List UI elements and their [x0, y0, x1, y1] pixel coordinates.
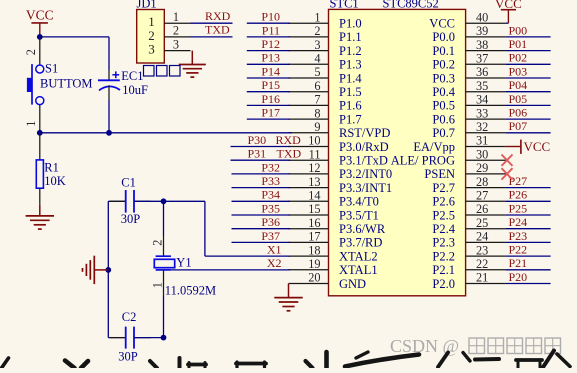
svg-text:18: 18 [308, 243, 320, 257]
svg-text:RST/VPD: RST/VPD [339, 126, 390, 140]
wire net P33 [232, 187, 291, 189]
JD1 pin 2 [148, 24, 190, 43]
svg-text:VCC: VCC [495, 0, 522, 11]
wire JD1 pin2 (TXD) [191, 36, 233, 38]
svg-text:36: 36 [476, 65, 488, 79]
svg-text:R1: R1 [44, 160, 59, 174]
C2 designator [122, 310, 137, 324]
svg-text:PSEN: PSEN [424, 167, 455, 181]
svg-text:P37: P37 [261, 229, 280, 243]
svg-text:33: 33 [476, 106, 488, 120]
junction (VCC / S1 / EC1) [37, 34, 43, 40]
connector JD1 body [137, 10, 165, 64]
svg-text:13: 13 [308, 175, 320, 189]
svg-text:VCC: VCC [524, 139, 551, 154]
svg-text:P30: P30 [248, 133, 267, 147]
crystal Y1 pin 1 [151, 270, 165, 338]
IC pin 6 (P1.5) [289, 79, 362, 99]
crystal Y1 pin 2 [151, 201, 165, 256]
IC pin 33 (P0.6) [432, 106, 505, 126]
resistor R1 [36, 133, 43, 205]
IC pin 29 (PSEN) [424, 161, 505, 181]
svg-text:37: 37 [476, 52, 488, 66]
IC pin 3 (P1.2) [289, 38, 362, 58]
svg-text:P0.1: P0.1 [432, 44, 455, 58]
svg-text:7: 7 [314, 93, 320, 107]
svg-text:2: 2 [151, 240, 165, 246]
svg-text:3: 3 [148, 42, 155, 57]
JD1 pin 1 [148, 10, 190, 29]
svg-text:24: 24 [476, 230, 488, 244]
wire net P22 [506, 255, 551, 257]
wire net P07 [506, 132, 551, 134]
svg-text:P0.3: P0.3 [432, 71, 455, 85]
svg-text:P2.7: P2.7 [432, 181, 455, 195]
wire net P10 [247, 22, 290, 24]
svg-text:P1.2: P1.2 [339, 44, 362, 58]
wire EC1 to RST net [108, 100, 110, 133]
net label P17 [261, 106, 280, 120]
svg-text:30P: 30P [121, 212, 141, 226]
svg-text:P20: P20 [509, 270, 528, 284]
svg-text:TXD: TXD [205, 23, 230, 37]
svg-text:30: 30 [476, 147, 488, 161]
svg-text:P2.2: P2.2 [432, 249, 455, 263]
net label P30 RXD [248, 133, 302, 147]
IC pin 30 (ALE/ PROG) [391, 147, 506, 167]
watermark CSDN @嵌入式基地 [390, 336, 561, 356]
svg-text:JD1: JD1 [137, 0, 157, 11]
svg-text:X2: X2 [267, 256, 282, 270]
IC pin 1 (P1.0) [289, 10, 362, 30]
wire net P20 [506, 283, 551, 285]
ground (IC pin 20) [274, 284, 302, 311]
ground (crystal circuit, rotated) [83, 256, 109, 284]
IC pin 7 (P1.6) [289, 93, 362, 113]
svg-text:P3.2/INT0: P3.2/INT0 [339, 167, 392, 181]
IC pin 20 (GND) [289, 271, 367, 291]
power port VCC (top left) [26, 8, 54, 37]
IC pin 12 (P3.2/INT0) [289, 161, 393, 181]
svg-text:19: 19 [308, 257, 320, 271]
IC pin 31 (EA/Vpp) [413, 134, 505, 154]
net label P32 [261, 160, 280, 174]
capacitor EC1 (polarized) [98, 70, 120, 100]
net label P15 [261, 78, 280, 92]
svg-text:5: 5 [314, 65, 320, 79]
C2 value 30P [118, 350, 138, 364]
net label P07 [509, 119, 528, 133]
wire JD1 pin1 (RXD) [191, 22, 233, 24]
svg-text:P02: P02 [509, 51, 528, 65]
ground (JD1 pin 3) [179, 51, 206, 78]
svg-text:27: 27 [476, 189, 488, 203]
IC pin 27 (P2.6) [432, 189, 505, 209]
IC pin 32 (P0.7) [432, 120, 505, 140]
wire net P21 [506, 269, 551, 271]
svg-text:P23: P23 [509, 229, 528, 243]
wire C2 to Y1 [134, 337, 164, 339]
svg-text:P1.6: P1.6 [339, 99, 362, 113]
IC pin 5 (P1.4) [289, 65, 363, 85]
net label P26 [509, 188, 528, 202]
IC pin 36 (P0.3) [432, 65, 505, 85]
svg-text:P32: P32 [261, 160, 280, 174]
svg-text:P17: P17 [261, 106, 280, 120]
no-connect X on pin 29 [502, 168, 513, 179]
svg-text:P16: P16 [261, 92, 280, 106]
svg-text:P0.2: P0.2 [432, 58, 455, 72]
wire net P35 [232, 214, 291, 216]
junction (C2 / Y1) [161, 335, 167, 341]
svg-text:P33: P33 [261, 174, 280, 188]
IC designator STC1 [330, 0, 359, 11]
wire net P15 [247, 91, 290, 93]
svg-text:26: 26 [476, 202, 488, 216]
svg-text:ALE/ PROG: ALE/ PROG [391, 154, 455, 168]
svg-text:RXD: RXD [276, 133, 302, 147]
wire net P00 [506, 36, 551, 38]
svg-text:8: 8 [314, 106, 320, 120]
junction (C1 / Y1 / X1) [161, 198, 167, 204]
net label P00 [509, 23, 528, 37]
svg-text:23: 23 [476, 243, 488, 257]
svg-text:P0.7: P0.7 [432, 126, 455, 140]
IC pin 11 (P3.1/TxD) [289, 147, 388, 167]
svg-text:P1.1: P1.1 [339, 30, 362, 44]
net label P11 [262, 23, 280, 37]
net label TXD [205, 23, 230, 37]
svg-text:X1: X1 [267, 243, 282, 257]
wire net P34 [232, 200, 291, 202]
power port VCC (top right) [495, 0, 522, 23]
net label P22 [509, 243, 528, 257]
svg-text:32: 32 [476, 120, 488, 134]
svg-text:P14: P14 [261, 64, 280, 78]
IC pin 4 (P1.3) [289, 52, 362, 72]
svg-text:P36: P36 [261, 215, 280, 229]
svg-text:P01: P01 [509, 37, 528, 51]
net label P01 [509, 37, 528, 51]
svg-text:P04: P04 [509, 78, 528, 92]
svg-text:P21: P21 [509, 256, 528, 270]
svg-text:10uF: 10uF [122, 83, 148, 97]
IC pin 8 (P1.7) [289, 106, 362, 126]
svg-text:P3.3/INT1: P3.3/INT1 [339, 181, 392, 195]
svg-text:3: 3 [314, 38, 320, 52]
svg-text:P2.4: P2.4 [432, 222, 455, 236]
EC1 designator [121, 69, 143, 83]
svg-text:VCC: VCC [26, 8, 54, 23]
net label P03 [509, 64, 528, 78]
svg-text:EA/Vpp: EA/Vpp [413, 140, 455, 154]
svg-text:P22: P22 [509, 243, 528, 257]
IC pin 35 (P0.4) [432, 79, 505, 99]
svg-text:P35: P35 [261, 201, 280, 215]
svg-text:C2: C2 [122, 310, 137, 324]
svg-text:9: 9 [314, 120, 320, 134]
svg-text:P10: P10 [261, 10, 280, 24]
pushbutton S1 pin 1 [24, 105, 40, 133]
net label P13 [261, 51, 280, 65]
svg-text:22: 22 [476, 257, 488, 271]
net label P27 [509, 174, 528, 188]
pushbutton S1 contacts/actuator [27, 64, 44, 105]
wire left leg (C1-C2 left) [108, 201, 125, 337]
svg-text:P3.7/RD: P3.7/RD [339, 236, 382, 250]
junction (left leg / ground) [105, 267, 111, 273]
svg-text:P00: P00 [509, 23, 528, 37]
net label P33 [261, 174, 280, 188]
svg-text:P05: P05 [509, 92, 528, 106]
svg-text:P2.6: P2.6 [432, 195, 455, 209]
power port VCC (EA/Vpp pin 31) [506, 139, 551, 154]
net label P10 [261, 10, 280, 24]
svg-text:P12: P12 [261, 37, 280, 51]
svg-text:2: 2 [173, 24, 179, 38]
IC pin 25 (P2.4) [432, 216, 505, 236]
IC pin 13 (P3.3/INT1) [289, 175, 393, 195]
wire net P32 [232, 173, 291, 175]
capacitor C2 [110, 327, 151, 349]
svg-text:P24: P24 [509, 215, 528, 229]
svg-text:P25: P25 [509, 201, 528, 215]
svg-text:40: 40 [476, 10, 488, 24]
net label P04 [509, 78, 528, 92]
svg-text:P2.1: P2.1 [432, 263, 455, 277]
svg-text:P03: P03 [509, 64, 528, 78]
IC pin 19 (XTAL1) [289, 257, 378, 277]
svg-text:25: 25 [476, 216, 488, 230]
svg-text:GND: GND [339, 277, 366, 291]
wire net P06 [506, 118, 551, 120]
IC pin 28 (P2.7) [432, 175, 505, 195]
wire X2 net [171, 269, 290, 271]
svg-text:14: 14 [308, 189, 320, 203]
svg-text:XTAL1: XTAL1 [339, 263, 378, 277]
caption 单片机最小系统电路 (cut off, drawn as strokes) [2, 351, 571, 369]
net label P05 [509, 92, 528, 106]
junction (EC1 / RST) [106, 130, 112, 136]
EC1 value 10uF [122, 83, 148, 97]
IC pin 24 (P2.3) [432, 230, 505, 250]
svg-text:S1: S1 [45, 62, 58, 76]
Y1 designator [176, 256, 191, 270]
wire net P05 [506, 104, 551, 106]
svg-text:20: 20 [308, 271, 320, 285]
IC pin 17 (P3.7/RD) [289, 230, 383, 250]
svg-text:RXD: RXD [205, 9, 231, 23]
svg-text:31: 31 [476, 134, 488, 148]
wire net P03 [506, 77, 551, 79]
svg-text:34: 34 [476, 93, 488, 107]
svg-text:15: 15 [308, 202, 320, 216]
svg-text:16: 16 [308, 216, 320, 230]
svg-text:P3.5/T1: P3.5/T1 [339, 208, 379, 222]
svg-text:P2.0: P2.0 [432, 277, 455, 291]
svg-text:2: 2 [24, 49, 38, 55]
svg-text:P1.3: P1.3 [339, 58, 362, 72]
svg-text:17: 17 [308, 230, 320, 244]
svg-text:P1.7: P1.7 [339, 112, 362, 126]
svg-text:EC1: EC1 [121, 69, 143, 83]
svg-text:30P: 30P [118, 350, 138, 364]
wire net P26 [506, 200, 551, 202]
IC pin 15 (P3.5/T1) [289, 202, 379, 222]
svg-text:29: 29 [476, 161, 488, 175]
net label P31 TXD [248, 147, 302, 161]
wire net P23 [506, 241, 551, 243]
wire net P25 [506, 214, 551, 216]
wire net P14 [247, 77, 290, 79]
svg-text:P0.0: P0.0 [432, 30, 455, 44]
capacitor C1 [110, 190, 151, 213]
IC pin 26 (P2.5) [432, 202, 505, 222]
svg-text:P2.3: P2.3 [432, 236, 455, 250]
wire net P24 [506, 228, 551, 230]
net label P06 [509, 106, 528, 120]
svg-text:21: 21 [476, 271, 488, 285]
svg-text:P0.6: P0.6 [432, 112, 455, 126]
wire net P04 [506, 91, 551, 93]
wire X1 net [164, 201, 291, 256]
svg-text:Y1: Y1 [176, 256, 191, 270]
svg-text:11: 11 [309, 147, 321, 161]
svg-text:10K: 10K [44, 174, 66, 188]
svg-text:STC1: STC1 [330, 0, 359, 11]
svg-text:P31: P31 [248, 147, 267, 161]
R1 designator [44, 160, 59, 174]
wire net P13 [247, 63, 290, 65]
wire pin40 to VCC [506, 22, 509, 24]
svg-text:P27: P27 [509, 174, 528, 188]
junction (S1 / R1 / RST) [37, 130, 43, 136]
IC pin 10 (P3.0/RxD) [289, 134, 389, 154]
no-connect X on pin 30 [502, 155, 513, 166]
svg-text:28: 28 [476, 175, 488, 189]
wire net P27 [506, 187, 551, 189]
Y1 value 11.0592M [165, 284, 216, 298]
svg-text:38: 38 [476, 38, 488, 52]
IC pin 9 (RST/VPD) [289, 120, 391, 140]
C1 value 30P [121, 212, 141, 226]
connector designator JD1 [137, 0, 157, 11]
svg-text:P0.5: P0.5 [432, 99, 455, 113]
svg-text:10: 10 [308, 134, 320, 148]
net label P34 [261, 188, 280, 202]
wire C1 to XTAL2 node [134, 200, 164, 202]
svg-text:1: 1 [151, 282, 165, 288]
wire net P16 [247, 104, 290, 106]
svg-text:TXD: TXD [277, 147, 302, 161]
svg-text:P1.5: P1.5 [339, 85, 362, 99]
wire VCC node to EC1 [40, 37, 109, 70]
svg-text:6: 6 [314, 79, 320, 93]
svg-text:C1: C1 [121, 176, 136, 190]
IC STC1 STC89C52 body [329, 9, 466, 295]
svg-text:P3.1/TxD: P3.1/TxD [339, 154, 388, 168]
net label P14 [261, 64, 280, 78]
IC pin 21 (P2.0) [432, 271, 505, 291]
svg-text:39: 39 [476, 24, 488, 38]
net label P02 [509, 51, 528, 65]
svg-text:1: 1 [314, 10, 320, 24]
wire net P17 [247, 118, 290, 120]
svg-text:3: 3 [173, 37, 179, 51]
net label P24 [509, 215, 528, 229]
wire net P02 [506, 63, 551, 65]
IC pin 40 (VCC) [429, 10, 505, 30]
svg-text:P1.4: P1.4 [339, 71, 362, 85]
net label P37 [261, 229, 280, 243]
svg-text:P2.5: P2.5 [432, 208, 455, 222]
wire net P11 [247, 36, 290, 38]
net label X2 [267, 256, 282, 270]
svg-text:35: 35 [476, 79, 488, 93]
IC pin 14 (P3.4/T0) [289, 189, 379, 209]
IC pin 16 (P3.6/WR) [289, 216, 386, 236]
net label P21 [509, 256, 528, 270]
wire net P30/RXD [231, 146, 291, 148]
svg-text:P1.0: P1.0 [339, 17, 362, 31]
svg-text:P11: P11 [262, 23, 280, 37]
label 下载口 (download port, drawn as glyph boxes) [144, 66, 181, 77]
pushbutton S1 pin 2 [24, 37, 40, 65]
crystal Y1 [154, 256, 174, 270]
net label RXD [205, 9, 231, 23]
svg-text:P34: P34 [261, 188, 280, 202]
C1 designator [121, 176, 136, 190]
svg-text:VCC: VCC [429, 17, 455, 31]
svg-text:P0.4: P0.4 [432, 85, 455, 99]
net label X1 [267, 243, 282, 257]
wire net P01 [506, 50, 551, 52]
svg-text:2: 2 [314, 24, 320, 38]
wire net P37 [232, 241, 291, 243]
svg-text:P3.0/RxD: P3.0/RxD [339, 140, 389, 154]
svg-text:P3.6/WR: P3.6/WR [339, 222, 386, 236]
svg-text:12: 12 [308, 161, 320, 175]
svg-text:P26: P26 [509, 188, 528, 202]
svg-text:XTAL2: XTAL2 [339, 249, 378, 263]
svg-text:P3.4/T0: P3.4/T0 [339, 195, 379, 209]
svg-text:P07: P07 [509, 119, 528, 133]
IC pin 18 (XTAL2) [289, 243, 378, 263]
net label P23 [509, 229, 528, 243]
wire net P36 [232, 228, 291, 230]
R1 value 10K [44, 174, 66, 188]
IC pin 38 (P0.1) [432, 38, 505, 58]
svg-text:P13: P13 [261, 51, 280, 65]
S1 value BUTTOM [40, 77, 93, 91]
IC pin 34 (P0.5) [432, 93, 505, 113]
svg-text:P06: P06 [509, 106, 528, 120]
net label P16 [261, 92, 280, 106]
IC pin 39 (P0.0) [432, 24, 505, 44]
IC pin 23 (P2.2) [432, 243, 505, 263]
svg-text:1: 1 [24, 121, 38, 127]
svg-text:11.0592M: 11.0592M [165, 284, 216, 298]
net label P36 [261, 215, 280, 229]
net label P20 [509, 270, 528, 284]
JD1 pin 3 [148, 37, 190, 56]
svg-text:P15: P15 [261, 78, 280, 92]
wire net P12 [247, 50, 290, 52]
IC pin 22 (P2.1) [432, 257, 505, 277]
svg-text:1: 1 [173, 10, 179, 24]
net label P35 [261, 201, 280, 215]
net label P25 [509, 201, 528, 215]
